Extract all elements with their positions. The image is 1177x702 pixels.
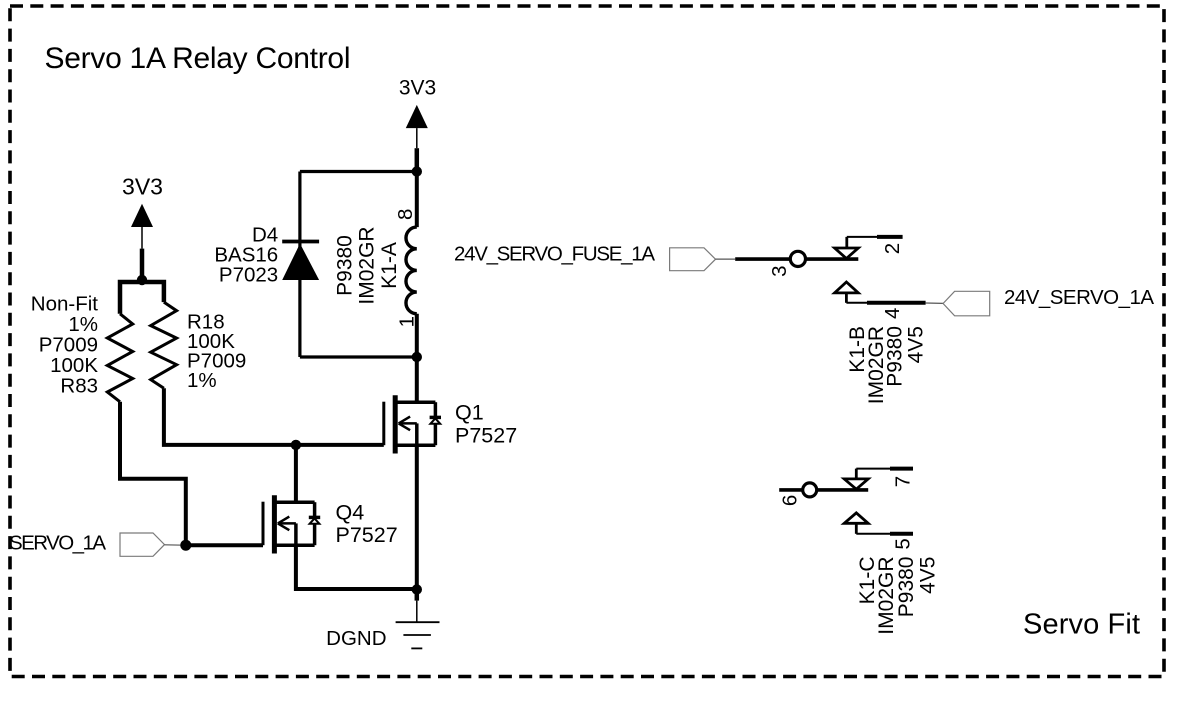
svg-text:Servo Fit: Servo Fit [1023,609,1140,641]
svg-text:Q1: Q1 [455,401,484,425]
svg-text:K1-A: K1-A [378,242,401,289]
svg-text:6: 6 [779,495,802,506]
diode D4 triangle [282,244,319,281]
node coil bottom junction dot [412,352,422,362]
resistor R18 (zigzag) [151,302,177,388]
svg-text:P7527: P7527 [336,523,398,547]
power 3V3 (top) arrow symbol [406,105,428,128]
svg-text:2: 2 [881,243,904,254]
wire port to contact [716,258,736,260]
wire coil top to D4 cathode branch [300,170,417,173]
wire R83 bottom to SERVO_1A node [120,402,186,545]
svg-text:P9380: P9380 [333,235,356,296]
svg-text:3: 3 [768,265,791,276]
wire pin6 stub [779,488,803,492]
svg-text:8: 8 [394,209,417,220]
wire Q1 source down to ground node [415,445,419,589]
svg-text:P7527: P7527 [455,424,517,448]
port SERVO_1A symbol [120,533,165,556]
node: resistor top junction dot [137,275,147,285]
svg-text:R83: R83 [60,374,98,397]
wire pin3 [735,257,790,261]
node SERVO_1A junction dot [180,540,191,551]
node gate rail junction dot [291,440,301,450]
svg-text:P7023: P7023 [219,263,278,286]
wire circle to K1-C [817,488,869,492]
svg-text:IM02GR: IM02GR [355,226,378,304]
svg-text:P9380: P9380 [883,326,906,387]
svg-text:1%: 1% [187,369,217,392]
relay coil K1-A arcs [406,227,417,314]
node ground junction dot [412,584,422,594]
wire junction down to Q4 drain [294,445,298,502]
ground DGND symbol [415,590,420,601]
pin 6 contact circle [803,483,817,497]
svg-text:SERVO_1A: SERVO_1A [9,532,106,555]
wire yoke to R83/R18 tops [120,282,164,314]
wire D4 bottom to coil bottom [300,355,417,358]
wire D4 vertical branch [298,172,301,358]
pin 3 contact circle [790,251,805,266]
relay contact K1-B NO triangle (pin 4) [835,282,859,293]
wire pin7 [856,468,890,470]
svg-text:DGND: DGND [326,627,386,650]
port 24V_SERVO_1A symbol [943,291,990,316]
relay contact K1-C NC triangle (pin 7) [844,479,868,489]
svg-text:4: 4 [881,308,904,319]
wire circle to K1-B [806,257,859,261]
svg-text:5: 5 [891,538,914,549]
svg-text:24V_SERVO_FUSE_1A: 24V_SERVO_FUSE_1A [454,243,655,266]
relay contact K1-B NC triangle (pin 2) [835,248,859,259]
svg-text:Q4: Q4 [336,501,365,525]
port 24V_SERVO_FUSE_1A symbol [670,248,716,271]
wire pin5 [856,533,890,535]
power 3V3 (left) arrow symbol [131,204,153,227]
svg-text:Servo 1A Relay Control: Servo 1A Relay Control [45,42,351,75]
svg-text:4V5: 4V5 [917,557,940,594]
svg-text:4V5: 4V5 [905,326,928,363]
wire port to node [165,544,185,546]
wire R18 bottom to gate rail [164,388,384,445]
node coil top junction dot [412,166,422,176]
wire Q4 source to ground rail [296,545,417,589]
wire pin2 [847,236,877,238]
diode D4 cathode bar [282,240,319,244]
svg-text:24V_SERVO_1A: 24V_SERVO_1A [1004,286,1154,309]
relay contact K1-C NO triangle (pin 5) [844,513,868,523]
wire coil bottom to Q1 drain [415,314,419,403]
svg-text:3V3: 3V3 [399,77,436,100]
wire 3V3 down to coil top [415,172,419,228]
svg-text:7: 7 [891,476,914,487]
svg-text:3V3: 3V3 [122,174,163,200]
wire pin4 [846,302,867,304]
transistor Q4 (NMOS) [263,495,320,553]
wire node to Q4 gate [186,543,263,547]
svg-text:P9380: P9380 [895,557,918,618]
transistor Q1 (NMOS) [384,395,441,453]
resistor R83 (zigzag) [107,314,132,402]
